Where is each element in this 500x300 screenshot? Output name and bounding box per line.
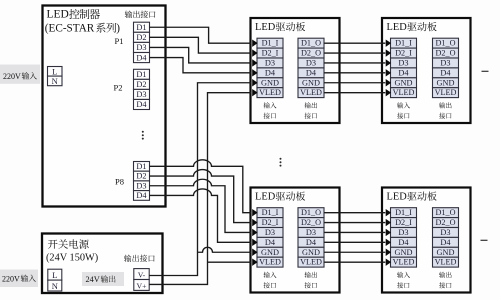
wire U2.VLED to U3 input xyxy=(324,92,385,94)
input arrow into VLED of U2 (top middle) xyxy=(252,89,257,96)
svg-text:VLED: VLED xyxy=(300,88,322,97)
svg-text:D2_O: D2_O xyxy=(435,49,455,58)
continuation dots (P3..P7) xyxy=(142,131,144,133)
label: 输入接口 of U5 (bottom right) xyxy=(397,272,403,278)
svg-text:N: N xyxy=(52,76,58,86)
svg-text:D2: D2 xyxy=(136,172,146,181)
svg-text:D1_I: D1_I xyxy=(395,39,412,48)
svg-text:220V: 220V xyxy=(3,72,21,81)
pin VLED (input) of U3 (top right) xyxy=(391,88,417,98)
label: 220V输入 (top) xyxy=(0,65,40,84)
pin D2_I (input) of U5 (bottom right) xyxy=(391,218,417,228)
svg-text:D2_O: D2_O xyxy=(301,49,321,58)
pin GND (output) of U3 (top right) xyxy=(433,78,459,88)
wire P1.D4 to U2.D4 xyxy=(150,58,252,73)
pin D1_O (output) of U4 (bottom middle) xyxy=(298,208,324,218)
svg-text:D2: D2 xyxy=(136,33,146,42)
svg-text:D1_O: D1_O xyxy=(301,208,321,217)
pin GND (output) of U5 (bottom right) xyxy=(433,247,459,257)
pin D3 (input) of U3 (top right) xyxy=(391,58,417,68)
pin D3 (input) of U5 (bottom right) xyxy=(391,228,417,238)
svg-text:L: L xyxy=(52,270,57,280)
pin VLED (input) of U4 (bottom middle) xyxy=(257,257,283,267)
svg-text:GND: GND xyxy=(302,248,320,257)
wire P1.D1 to U2.D1_I xyxy=(150,27,252,43)
pin N (power) xyxy=(48,280,62,291)
label: 24V输出 xyxy=(82,272,124,286)
pin D2_I (input) of U4 (bottom middle) xyxy=(257,218,283,228)
svg-text:VLED: VLED xyxy=(393,258,415,267)
label: 输出接口 (controller output port) xyxy=(125,11,133,18)
LED controller U1 box (EC-STAR) xyxy=(43,6,166,207)
input arrow into VLED of U5 (bottom right) xyxy=(386,258,391,265)
svg-text:D3: D3 xyxy=(398,228,408,237)
svg-text:D1_I: D1_I xyxy=(395,208,412,217)
input arrow into D3 of U5 (bottom right) xyxy=(386,229,391,236)
pin D1_I (input) of U3 (top right) xyxy=(391,38,417,48)
input arrow into D2_I of U4 (bottom middle) xyxy=(252,219,257,226)
wire P8.D3 to U4.D3 (hops over 24V bus) xyxy=(150,179,252,232)
svg-text:VLED: VLED xyxy=(435,258,457,267)
svg-text:D4: D4 xyxy=(398,68,409,77)
svg-text:VLED: VLED xyxy=(435,88,457,97)
switching power supply box (24V 150W) xyxy=(42,234,163,294)
svg-text:): ) xyxy=(116,22,120,34)
pin N (controller) xyxy=(48,76,63,86)
input arrow into D1_I of U5 (bottom right) xyxy=(386,209,391,216)
pin GND (output) of U4 (bottom middle) xyxy=(298,247,324,257)
pin GND (input) of U3 (top right) xyxy=(391,78,417,88)
label: 输出接口 of U3 (top right) xyxy=(439,102,445,108)
svg-text:GND: GND xyxy=(302,78,320,87)
pin D4 (input) of U3 (top right) xyxy=(391,68,417,78)
LED driver board U2 (top middle) box xyxy=(251,18,340,123)
svg-text:D4: D4 xyxy=(306,68,317,77)
input arrow into D1_I of U4 (bottom middle) xyxy=(252,209,257,216)
svg-text:220V: 220V xyxy=(2,275,20,284)
pin V- (24V output) xyxy=(134,269,149,280)
svg-text:GND: GND xyxy=(437,248,455,257)
svg-text:D1: D1 xyxy=(136,70,146,79)
pin VLED (output) of U5 (bottom right) xyxy=(433,257,459,267)
svg-text:VLED: VLED xyxy=(259,88,281,97)
connector P1 pins D1-D4 xyxy=(134,22,150,32)
input arrow into VLED of U3 (top right) xyxy=(386,89,391,96)
svg-text:D2_I: D2_I xyxy=(262,49,279,58)
pin L (controller) xyxy=(48,67,63,77)
pin D4 (input) of U4 (bottom middle) xyxy=(257,237,283,247)
pin VLED (input) of U2 (top middle) xyxy=(257,88,283,98)
wire U2.D2_O to U3 input xyxy=(324,52,385,54)
wire P1.D3 to U2.D3 xyxy=(150,47,252,63)
pin D2_O (output) of U3 (top right) xyxy=(433,48,459,58)
pin D2_I (input) of U2 (top middle) xyxy=(257,48,283,58)
svg-text:VLED: VLED xyxy=(259,258,281,267)
svg-text:(EC-STAR: (EC-STAR xyxy=(45,22,95,34)
label: 输入接口 of U2 (top middle) xyxy=(264,102,270,108)
LED driver board U5 (bottom right) box xyxy=(382,188,471,293)
pin D3 (output) of U5 (bottom right) xyxy=(433,228,459,238)
svg-text:GND: GND xyxy=(437,78,455,87)
input arrow into D3 of U2 (top middle) xyxy=(252,59,257,66)
pin D3 (input) of U4 (bottom middle) xyxy=(257,228,283,238)
svg-text:GND: GND xyxy=(261,248,279,257)
input arrow into GND of U5 (bottom right) xyxy=(386,249,391,256)
wire P8.D1 to U4.D1_I (hops over 24V bus) xyxy=(150,160,252,213)
svg-text:D4: D4 xyxy=(136,191,147,200)
wire U4.D2_O to U5 input xyxy=(324,222,385,224)
LED driver board U3 (top right) box xyxy=(382,18,471,123)
input arrow into D4 of U3 (top right) xyxy=(386,69,391,76)
label: 输入接口 of U3 (top right) xyxy=(397,102,403,108)
pin VLED (output) of U2 (top middle) xyxy=(298,88,324,98)
svg-text:D1_I: D1_I xyxy=(262,39,279,48)
wire U4.VLED to U5 input xyxy=(324,261,385,263)
svg-text:D2_O: D2_O xyxy=(435,218,455,227)
connector P2 pins D1-D4 xyxy=(134,69,150,79)
wire U4.D3 to U5 input xyxy=(324,231,385,233)
input arrow into D3 of U4 (bottom middle) xyxy=(252,229,257,236)
pin GND (input) of U2 (top middle) xyxy=(257,78,283,88)
svg-text:VLED: VLED xyxy=(393,88,415,97)
svg-text:LED: LED xyxy=(255,192,276,203)
pin VLED (input) of U5 (bottom right) xyxy=(391,257,417,267)
pin D1_I (input) of U5 (bottom right) xyxy=(391,208,417,218)
pin D1_I (input) of U4 (bottom middle) xyxy=(257,208,283,218)
pin D4 (output) of U5 (bottom right) xyxy=(433,237,459,247)
svg-text:D3: D3 xyxy=(398,59,408,68)
wire U2.GND to U3 input xyxy=(324,82,385,84)
label: 输入接口 of U4 (bottom middle) xyxy=(264,272,270,278)
svg-text:GND: GND xyxy=(395,248,413,257)
LED driver board U4 (bottom middle) box xyxy=(251,188,340,293)
input arrow into D1_I of U3 (top right) xyxy=(386,39,391,46)
svg-text:D1: D1 xyxy=(136,162,146,171)
wire P8.D4 to U4.D4 (hops over 24V bus) xyxy=(150,189,252,242)
label: 开关电源 xyxy=(48,240,58,249)
svg-text:D4: D4 xyxy=(440,68,451,77)
pin D2_O (output) of U2 (top middle) xyxy=(298,48,324,58)
input arrow into GND of U4 (bottom middle) xyxy=(252,249,257,256)
pin L (power) xyxy=(48,269,62,280)
pin D3 (output) of U3 (top right) xyxy=(433,58,459,68)
svg-text:LED: LED xyxy=(47,9,69,21)
pin GND (input) of U5 (bottom right) xyxy=(391,247,417,257)
input arrow into D2_I of U2 (top middle) xyxy=(252,49,257,56)
input arrow into D4 of U5 (bottom right) xyxy=(386,239,391,246)
pin D2_O (output) of U5 (bottom right) xyxy=(433,218,459,228)
svg-text:V+: V+ xyxy=(136,282,147,291)
svg-text:L: L xyxy=(52,67,57,77)
pin D1_I (input) of U2 (top middle) xyxy=(257,38,283,48)
label: 220V输入 (bottom) xyxy=(0,270,38,288)
input arrow into D4 of U2 (top middle) xyxy=(252,69,257,76)
wire V- (GND bus) to U2.GND xyxy=(149,83,251,276)
svg-text:D2: D2 xyxy=(136,80,146,89)
wire U4.D4 to U5 input xyxy=(324,241,385,243)
svg-text:LED: LED xyxy=(255,22,276,33)
svg-text:LED: LED xyxy=(387,22,408,33)
wire U2.D1_O to U3 input xyxy=(324,42,385,44)
pin D4 (output) of U3 (top right) xyxy=(433,68,459,78)
wire P1.D2 to U2.D2_I xyxy=(150,37,252,53)
wire P8.D2 to U4.D2_I (hops over 24V bus) xyxy=(150,170,252,223)
connector P8 pins D1-D4 xyxy=(134,162,150,172)
input arrow into GND of U3 (top right) xyxy=(386,79,391,86)
label: 输出接口 of U4 (bottom middle) xyxy=(305,272,311,278)
wire U4.D1_O to U5 input xyxy=(324,212,385,214)
svg-text:D4: D4 xyxy=(265,238,276,247)
continuation dash right of U5 xyxy=(481,239,488,241)
svg-text:D3: D3 xyxy=(265,228,275,237)
svg-text:GND: GND xyxy=(261,78,279,87)
pin D3 (input) of U2 (top middle) xyxy=(257,58,283,68)
pin D2_I (input) of U3 (top right) xyxy=(391,48,417,58)
label: 输出接口 (power output port) xyxy=(124,255,131,262)
svg-text:D4: D4 xyxy=(136,100,147,109)
wire U2.D3 to U3 input xyxy=(324,62,385,64)
pin D3 (output) of U2 (top middle) xyxy=(298,58,324,68)
svg-text:D1_O: D1_O xyxy=(435,39,455,48)
pin D1_O (output) of U2 (top middle) xyxy=(298,38,324,48)
svg-text:D1_O: D1_O xyxy=(435,208,455,217)
svg-text:P8: P8 xyxy=(115,177,124,187)
svg-text:V-: V- xyxy=(138,271,146,280)
svg-text:D1: D1 xyxy=(136,23,146,32)
svg-text:D1_O: D1_O xyxy=(301,39,321,48)
svg-text:LED: LED xyxy=(387,192,408,203)
pin VLED (output) of U3 (top right) xyxy=(433,88,459,98)
svg-text:24V: 24V xyxy=(86,275,100,284)
svg-text:D2_O: D2_O xyxy=(301,218,321,227)
svg-text:D4: D4 xyxy=(265,68,276,77)
svg-text:P2: P2 xyxy=(114,83,123,93)
pin VLED (output) of U4 (bottom middle) xyxy=(298,257,324,267)
pin D4 (input) of U2 (top middle) xyxy=(257,68,283,78)
svg-text:D2_I: D2_I xyxy=(395,218,412,227)
label: 输出接口 of U2 (top middle) xyxy=(305,102,311,108)
pin D1_O (output) of U3 (top right) xyxy=(433,38,459,48)
continuation dots between U2 and U4 xyxy=(280,158,282,160)
input arrow into D2_I of U5 (bottom right) xyxy=(386,219,391,226)
svg-text:D4: D4 xyxy=(398,238,409,247)
svg-text:D3: D3 xyxy=(265,59,275,68)
pin GND (output) of U2 (top middle) xyxy=(298,78,324,88)
input arrow into D4 of U4 (bottom middle) xyxy=(252,239,257,246)
svg-text:P1: P1 xyxy=(115,36,124,46)
input arrow into D2_I of U3 (top right) xyxy=(386,49,391,56)
svg-text:D1_I: D1_I xyxy=(262,208,279,217)
svg-text:VLED: VLED xyxy=(300,258,322,267)
pin D2_O (output) of U4 (bottom middle) xyxy=(298,218,324,228)
wire GND bus branch to U4.GND (hop over VLED bus) xyxy=(198,247,252,252)
svg-text:D4: D4 xyxy=(306,238,317,247)
svg-text:D4: D4 xyxy=(136,53,147,62)
svg-text:(24V 150W): (24V 150W) xyxy=(46,253,98,264)
pin D4 (output) of U4 (bottom middle) xyxy=(298,237,324,247)
svg-text:D3: D3 xyxy=(440,59,450,68)
wire U2.D4 to U3 input xyxy=(324,72,385,74)
svg-text:D3: D3 xyxy=(440,228,450,237)
input arrow into D3 of U3 (top right) xyxy=(386,59,391,66)
input arrow into D1_I of U2 (top middle) xyxy=(252,39,257,46)
pin GND (input) of U4 (bottom middle) xyxy=(257,247,283,257)
svg-text:D3: D3 xyxy=(136,90,146,99)
continuation dash right of U3 xyxy=(482,70,489,72)
pin D4 (output) of U2 (top middle) xyxy=(298,68,324,78)
svg-text:D4: D4 xyxy=(440,238,451,247)
pin D3 (output) of U4 (bottom middle) xyxy=(298,228,324,238)
wire U4.GND to U5 input xyxy=(324,251,385,253)
svg-text:N: N xyxy=(52,281,58,291)
svg-text:D3: D3 xyxy=(136,181,146,190)
svg-text:D3: D3 xyxy=(306,228,316,237)
pin V+ (24V output) xyxy=(134,280,149,291)
input arrow into VLED of U4 (bottom middle) xyxy=(252,258,257,265)
wire VLED bus branch to U4.VLED xyxy=(208,261,252,263)
svg-text:D3: D3 xyxy=(136,43,146,52)
svg-text:D2_I: D2_I xyxy=(262,218,279,227)
label: 输出接口 of U5 (bottom right) xyxy=(439,272,445,278)
svg-text:D2_I: D2_I xyxy=(395,49,412,58)
pin D4 (input) of U5 (bottom right) xyxy=(391,237,417,247)
svg-text:GND: GND xyxy=(395,78,413,87)
wire V+ (VLED bus) to U2.VLED xyxy=(149,93,251,285)
svg-text:D3: D3 xyxy=(306,59,316,68)
input arrow into GND of U2 (top middle) xyxy=(252,79,257,86)
pin D1_O (output) of U5 (bottom right) xyxy=(433,208,459,218)
